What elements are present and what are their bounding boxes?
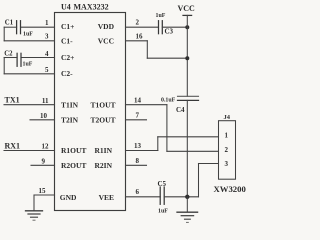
svg-text:2: 2 (225, 146, 229, 154)
svg-text:3: 3 (225, 160, 229, 168)
wire pin 8 (R2IN) stub (126, 164, 147, 166)
wire pin 16 (VCC) (126, 40, 148, 42)
junction dot VDD/VCC rail (185, 25, 189, 29)
svg-text:1: 1 (45, 19, 49, 27)
svg-text:1uF: 1uF (158, 208, 168, 214)
wire pin 4 (C2+) (21, 57, 55, 59)
svg-text:14: 14 (134, 96, 142, 104)
svg-text:XW3200: XW3200 (214, 184, 247, 194)
wire pin 6 (VEE) to C5 (126, 196, 161, 198)
wire pin 9 (R2OUT) stub (31, 164, 55, 166)
svg-text:VCC: VCC (178, 4, 196, 13)
svg-text:10: 10 (40, 112, 48, 120)
wire pin 13 (R1IN) (126, 150, 158, 152)
junction dot pin16/VCC rail (185, 56, 189, 60)
wire C5 to ground junction and J4 corner (164, 196, 198, 198)
svg-text:T1IN: T1IN (61, 100, 79, 109)
svg-text:12: 12 (42, 143, 50, 151)
svg-text:TX1: TX1 (5, 95, 20, 104)
wire to J4 pin 3 (199, 163, 219, 165)
capacitor C2 (17, 53, 21, 66)
svg-text:VDD: VDD (98, 22, 115, 31)
wire corner down (3, 58, 5, 74)
wire pin 7 (T2OUT) stub (126, 119, 147, 121)
capacitor C4 (178, 96, 199, 100)
svg-text:0.1uF: 0.1uF (161, 98, 176, 104)
svg-text:15: 15 (39, 187, 47, 195)
svg-text:1uF: 1uF (23, 31, 33, 37)
svg-text:C5: C5 (158, 180, 167, 188)
svg-text:U4: U4 (61, 3, 71, 12)
wire pin 16 to VCC rail (147, 57, 187, 59)
svg-text:3: 3 (45, 33, 49, 41)
svg-text:R1IN: R1IN (94, 146, 112, 155)
svg-text:T1OUT: T1OUT (90, 100, 115, 109)
ground (left) (26, 211, 43, 220)
capacitor C1 (17, 21, 21, 34)
wire C2 left plate to corner (4, 57, 17, 59)
svg-text:R2IN: R2IN (94, 161, 112, 170)
svg-text:C1-: C1- (61, 36, 73, 45)
wire pin 10 (T2IN) stub (30, 119, 55, 121)
wire pin 2 (VDD) to C3 (126, 26, 159, 28)
wire C4 down to ground junction (186, 100, 188, 196)
svg-text:9: 9 (42, 158, 46, 166)
wire pin 13 jog up (157, 137, 159, 151)
wire VCC rail down to C4 (186, 15, 188, 96)
wire pin 16 corner down (146, 41, 148, 58)
wire pin 14 (T1OUT) (126, 104, 167, 106)
svg-text:13: 13 (134, 142, 142, 150)
capacitor C3 (159, 21, 163, 34)
svg-text:1: 1 (225, 132, 229, 140)
wire pin 12 (R1OUT) from RX1 (4, 150, 55, 152)
wire pin 14 corner down (166, 105, 168, 152)
svg-text:1uF: 1uF (23, 61, 33, 67)
svg-text:6: 6 (136, 188, 140, 196)
svg-text:C1: C1 (5, 20, 14, 27)
svg-text:5: 5 (45, 66, 49, 74)
wire pin 11 (T1IN) from TX1 (4, 104, 55, 106)
wire pin 3 (C1-) (4, 40, 54, 42)
wire pin 13 to J4 pin 1 (158, 136, 219, 138)
svg-text:1uF: 1uF (156, 13, 166, 19)
wire pin 15 down to ground (33, 195, 35, 211)
wire pin 14 to J4 pin 2 (167, 150, 219, 152)
svg-text:RX1: RX1 (5, 141, 21, 150)
svg-text:VCC: VCC (98, 36, 114, 45)
svg-text:C3: C3 (165, 27, 174, 35)
svg-text:2: 2 (136, 18, 140, 26)
svg-text:C2: C2 (4, 51, 13, 58)
wire pin 15 (GND) (34, 194, 55, 196)
svg-text:VEE: VEE (99, 193, 114, 202)
svg-text:8: 8 (136, 157, 140, 165)
svg-text:C2-: C2- (61, 69, 73, 78)
svg-text:R2OUT: R2OUT (61, 161, 86, 170)
svg-text:4: 4 (45, 50, 49, 58)
svg-text:MAX3232: MAX3232 (74, 3, 109, 12)
VCC power symbol (178, 4, 196, 16)
IC U4 MAX3232 (55, 13, 126, 211)
svg-text:11: 11 (42, 97, 49, 105)
svg-text:T2IN: T2IN (61, 115, 79, 124)
svg-text:7: 7 (136, 111, 140, 119)
wire pin 5 (C2-) (4, 73, 54, 75)
svg-text:C1+: C1+ (61, 22, 74, 31)
svg-text:T2OUT: T2OUT (90, 115, 115, 124)
wire corner down (3, 27, 5, 41)
junction dot ground node (185, 195, 189, 199)
wire pin 1 (C1+) (21, 26, 55, 28)
wire C1 left plate to corner (4, 26, 16, 28)
svg-text:GND: GND (60, 193, 77, 202)
svg-text:R1OUT: R1OUT (61, 146, 86, 155)
svg-text:C2+: C2+ (61, 53, 74, 62)
wire C3 to VCC rail (162, 26, 187, 28)
ground (right) (177, 197, 198, 223)
connector J4 body (219, 121, 236, 180)
capacitor C5 (160, 187, 164, 204)
svg-text:J4: J4 (224, 114, 231, 121)
svg-text:16: 16 (136, 32, 144, 40)
wire J4 pin 3 riser (198, 164, 200, 197)
svg-text:C4: C4 (176, 106, 185, 114)
